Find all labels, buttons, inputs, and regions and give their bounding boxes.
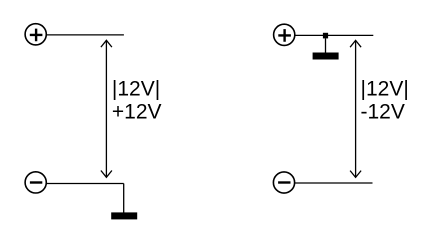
voltage arrow (right, double-headed)	[350, 40, 361, 177]
svg-text:-12V: -12V	[361, 101, 405, 124]
voltage arrow (left, double-headed)	[101, 40, 112, 177]
wire ground stub (right)	[325, 38, 327, 52]
svg-text:|12V|: |12V|	[361, 78, 409, 101]
wire bottom-left vertical drop	[123, 184, 125, 213]
source circle - (right, V2)	[273, 172, 294, 193]
source circle + (left, V1)	[25, 24, 46, 45]
svg-text:+12V: +12V	[112, 101, 162, 124]
wire bottom-left horizontal	[46, 183, 123, 185]
junction node dot (right top wire)	[323, 33, 328, 39]
wire top-right horizontal	[295, 34, 374, 36]
source circle + (right, V2)	[274, 24, 295, 45]
wire top-left horizontal	[46, 34, 124, 36]
svg-text:|12V|: |12V|	[112, 78, 160, 101]
ground (left)	[111, 212, 137, 219]
ground (right)	[313, 53, 339, 60]
wire bottom-right horizontal	[295, 182, 373, 184]
source circle - (left, V1)	[25, 172, 46, 193]
